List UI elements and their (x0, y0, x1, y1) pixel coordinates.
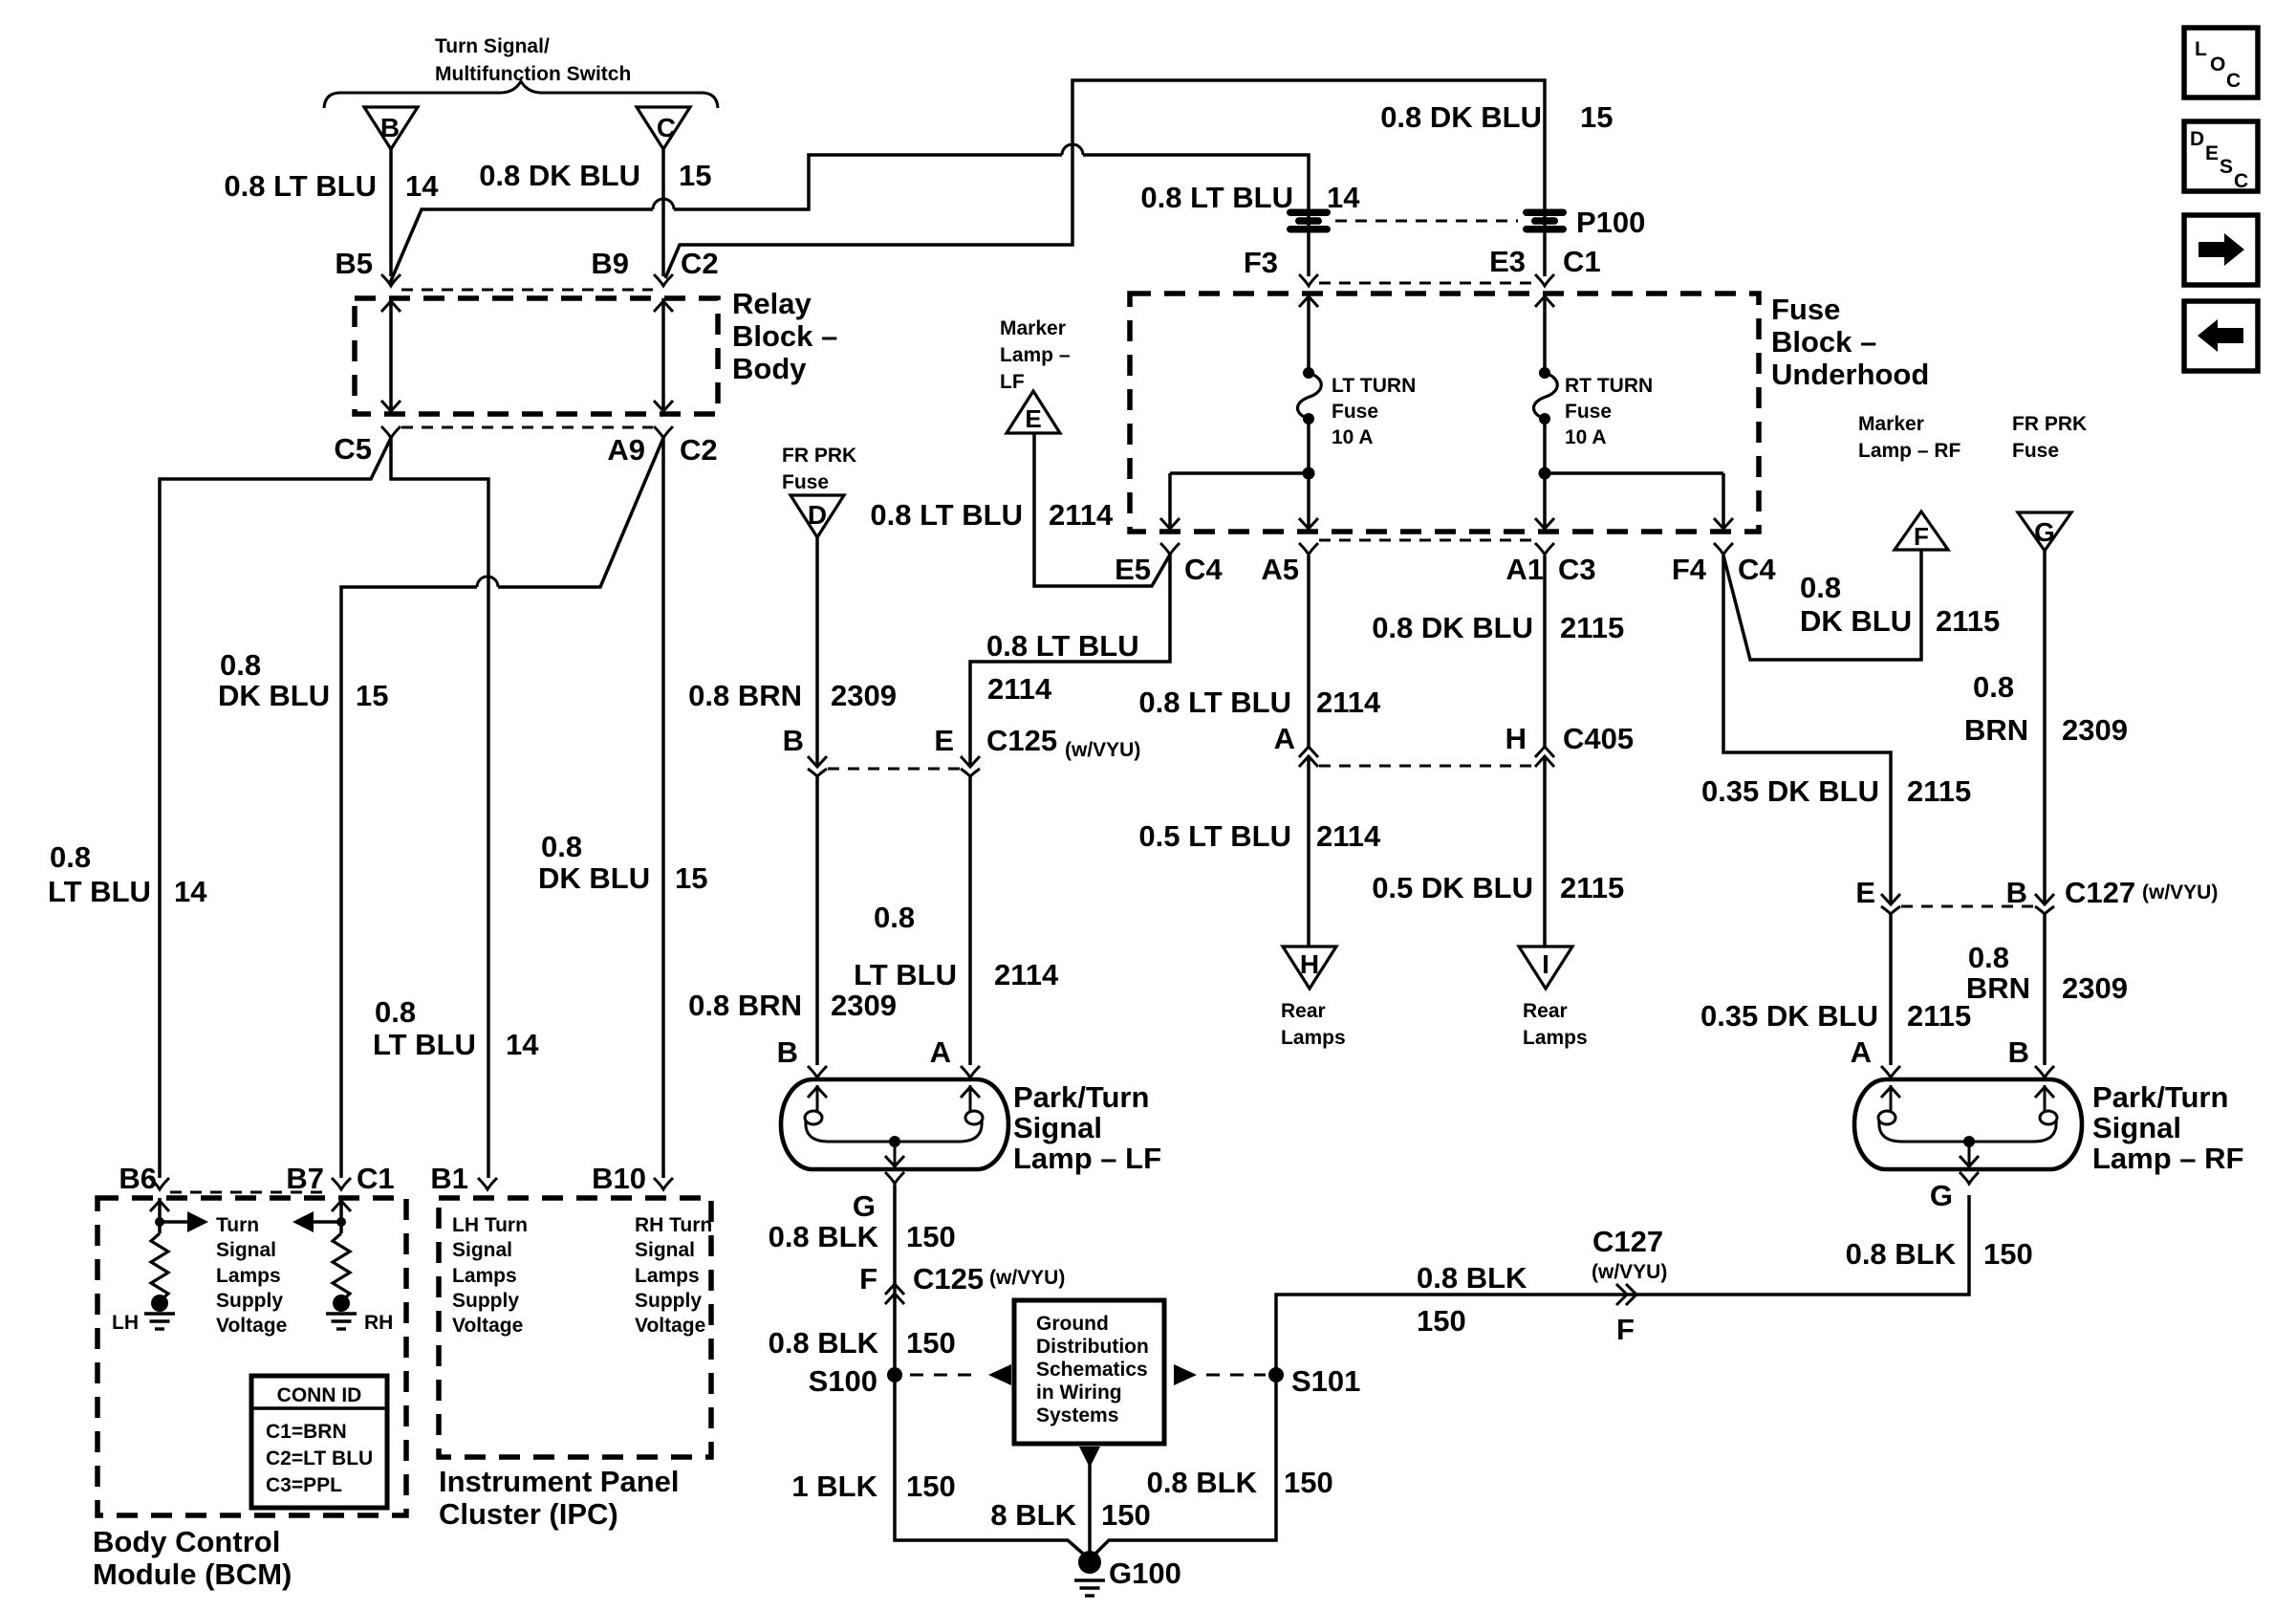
label 0.8 LT BLU 14 (top run) (1140, 181, 1360, 214)
svg-text:15: 15 (679, 159, 711, 192)
svg-text:0.8 DK BLU: 0.8 DK BLU (1372, 611, 1533, 644)
svg-text:D: D (808, 500, 827, 530)
svg-text:(w/VYU): (w/VYU) (2142, 882, 2218, 903)
svg-text:2309: 2309 (831, 679, 897, 712)
svg-text:1 BLK: 1 BLK (791, 1469, 877, 1503)
wire LT BLU 2114 A5 to rear lamps H (1307, 555, 1310, 947)
dashed line between grommets (1335, 220, 1518, 223)
svg-text:LT BLU: LT BLU (48, 875, 151, 908)
label 0.8 LT BLU 2114 (marker LF wire) (870, 498, 1114, 532)
svg-text:Signal: Signal (2092, 1111, 2181, 1144)
svg-text:0.8 BRN: 0.8 BRN (688, 989, 802, 1022)
svg-text:Park/Turn: Park/Turn (1013, 1080, 1149, 1114)
pin F (C125 ground) (859, 1262, 904, 1304)
svg-text:C127: C127 (2065, 876, 2135, 909)
BCM RH turn input (292, 1198, 357, 1329)
label 0.8 LT BLU 14 (circuit 14 at switch) (224, 169, 439, 203)
pin E (C125) (934, 724, 980, 776)
svg-text:O: O (2210, 54, 2225, 76)
wire DK BLU 15 A9 to BCM B7 (341, 438, 663, 1178)
svg-text:0.8: 0.8 (50, 840, 91, 874)
label 0.8 BLK 150 (lamp LF ground) (769, 1220, 956, 1253)
connector line C5-C2 (401, 426, 653, 429)
svg-text:B5: B5 (335, 247, 373, 280)
pin F (C127 ground) (1592, 1225, 1667, 1346)
pin C1 (BCM) (357, 1162, 395, 1195)
svg-text:LT TURN: LT TURN (1332, 375, 1416, 397)
label 0.8 DK BLU 2115 (marker RF wire) (1800, 571, 2000, 638)
svg-text:0.8 BLK: 0.8 BLK (1147, 1466, 1258, 1499)
svg-text:Voltage: Voltage (452, 1315, 523, 1337)
svg-text:0.5 LT BLU: 0.5 LT BLU (1138, 819, 1291, 853)
label 0.5 DK BLU 2115 (1372, 871, 1624, 904)
svg-text:150: 150 (906, 1220, 956, 1253)
svg-text:A: A (1274, 722, 1295, 755)
rear lamps connector H (1281, 947, 1346, 1049)
svg-text:C5: C5 (334, 432, 372, 466)
wire DK BLU 2115 F4 to marker lamp RF (1723, 550, 1921, 660)
svg-text:Signal: Signal (1013, 1111, 1102, 1144)
svg-text:DK BLU: DK BLU (218, 679, 330, 712)
svg-text:14: 14 (405, 169, 439, 203)
label 0.8 DK BLU 2115 (A1 to C405) (1372, 611, 1624, 644)
svg-text:Turn: Turn (216, 1214, 259, 1236)
svg-text:C: C (2226, 70, 2241, 92)
IPC LH turn indicator (452, 1214, 528, 1337)
svg-text:2114: 2114 (987, 672, 1052, 706)
svg-text:Turn Signal/: Turn Signal/ (435, 35, 550, 57)
pin A5 (1261, 543, 1318, 586)
svg-text:C: C (657, 113, 676, 142)
svg-text:C127: C127 (1592, 1225, 1663, 1258)
svg-text:I: I (1542, 949, 1549, 979)
Turn Signal/Multifunction Switch label (435, 35, 631, 85)
dashed pointer box to S101 (1174, 1364, 1266, 1385)
label 0.8 BLK 150 (S101 horizontal) (1417, 1261, 1527, 1338)
svg-text:0.8 LT BLU: 0.8 LT BLU (1140, 181, 1293, 214)
marker lamp - RF connector F (1858, 413, 1961, 551)
svg-text:Rear: Rear (1281, 1000, 1326, 1022)
svg-text:DK BLU: DK BLU (538, 861, 650, 895)
wire E3 into fuse block (1535, 294, 1554, 373)
svg-text:E3: E3 (1489, 245, 1526, 278)
svg-text:150: 150 (906, 1326, 956, 1360)
label 0.8 LT BLU 14 (wire to B1) (373, 995, 539, 1061)
label 0.8 BRN 2309 (upper) (688, 679, 897, 712)
BCM LH turn input (144, 1198, 208, 1329)
svg-text:CONN ID: CONN ID (277, 1384, 362, 1406)
pin C3 (1558, 553, 1596, 586)
label 0.5 LT BLU 2114 (1138, 819, 1381, 853)
lamp LF pin G (853, 1189, 876, 1223)
wire 0.8 BLK 150 S101 up to lamp RF G (1276, 1195, 1969, 1368)
svg-text:A5: A5 (1261, 553, 1299, 586)
label 0.8 LT BLU 14 (wire to B6) (48, 840, 207, 908)
svg-text:B: B (777, 1035, 798, 1069)
connector line B5-C2 (401, 289, 653, 292)
svg-text:Body: Body (732, 352, 807, 385)
svg-text:Systems: Systems (1036, 1404, 1118, 1426)
LH node label (112, 1312, 139, 1334)
svg-text:C3=PPL: C3=PPL (266, 1474, 342, 1496)
pin E (C127) (1855, 876, 1900, 914)
marker lamp - LF connector E (1000, 317, 1071, 433)
svg-text:Lamps: Lamps (1281, 1027, 1346, 1049)
lamp RF pin G (1930, 1172, 1979, 1212)
svg-text:2114: 2114 (1049, 498, 1114, 532)
svg-text:Block –: Block – (1771, 325, 1876, 359)
svg-text:G: G (1930, 1179, 1953, 1212)
connector C125 label (986, 724, 1140, 761)
svg-text:Lamp –: Lamp – (1000, 344, 1071, 366)
label 0.8 LT BLU 2114 (lamp LF pin A wire) (854, 901, 1059, 991)
svg-text:E: E (1025, 404, 1041, 433)
svg-text:Cluster (IPC): Cluster (IPC) (439, 1497, 618, 1531)
svg-text:C125: C125 (913, 1262, 984, 1295)
svg-text:Distribution: Distribution (1036, 1336, 1149, 1358)
svg-text:B: B (2006, 876, 2027, 909)
wire BRN 2309 C127 B to lamp RF pin B (2043, 914, 2047, 1065)
wire DK BLU 15 from B9/C2 to E3/C1 (665, 80, 1545, 278)
label 0.8 BRN 2309 (right upper) (1964, 670, 2128, 747)
svg-text:2309: 2309 (2062, 713, 2128, 747)
wire BRN 2309 C125 B to lamp LF pin B (815, 776, 819, 1065)
lamp LF pin A (930, 1035, 951, 1069)
svg-text:0.8 LT BLU: 0.8 LT BLU (986, 629, 1139, 663)
pin C2 (switch side) (654, 247, 719, 286)
connector C127 label (2065, 876, 2218, 909)
wire LT BLU 2114 E5 to marker lamp LF (1034, 433, 1170, 586)
svg-text:Lamp – LF: Lamp – LF (1013, 1142, 1161, 1175)
RH node label (364, 1312, 393, 1334)
svg-text:2114: 2114 (1316, 686, 1381, 719)
svg-text:Marker: Marker (1858, 413, 1924, 435)
svg-text:Supply: Supply (452, 1290, 519, 1312)
svg-text:2115: 2115 (1560, 611, 1624, 644)
svg-text:0.8 LT BLU: 0.8 LT BLU (870, 498, 1023, 532)
wire BRN 2309 D to C125 B (815, 537, 819, 767)
svg-text:0.35 DK BLU: 0.35 DK BLU (1701, 774, 1879, 808)
svg-text:0.8: 0.8 (375, 995, 416, 1029)
wire 0.8 BLK 150 S101 to G100 (1090, 1382, 1276, 1559)
svg-text:F: F (859, 1262, 877, 1295)
svg-text:FR PRK: FR PRK (2012, 413, 2087, 435)
svg-text:F: F (1914, 522, 1929, 551)
label 0.8 BLK 150 (S101 to ground) (1147, 1466, 1333, 1499)
svg-text:15: 15 (675, 861, 707, 895)
svg-text:8 BLK: 8 BLK (990, 1498, 1076, 1532)
svg-text:150: 150 (1284, 1466, 1333, 1499)
svg-text:G: G (2034, 517, 2055, 547)
svg-text:Fuse: Fuse (1771, 293, 1840, 326)
svg-text:C125: C125 (986, 724, 1057, 757)
svg-text:14: 14 (506, 1028, 539, 1061)
svg-text:14: 14 (174, 875, 207, 908)
ground distribution schematics box (1014, 1300, 1164, 1444)
svg-text:Fuse: Fuse (2012, 440, 2059, 462)
pin C1 (fuse block) (1535, 245, 1601, 286)
pin F3 (1244, 246, 1318, 286)
connector B (turn signal switch pin B) (364, 107, 418, 276)
wire DK BLU 2115 A1 to rear lamps I (1543, 555, 1547, 947)
svg-text:150: 150 (1417, 1304, 1466, 1338)
svg-text:Relay: Relay (732, 287, 812, 320)
pin B10 (592, 1162, 673, 1195)
svg-text:Lamps: Lamps (1523, 1027, 1588, 1049)
LT TURN fuse 10A (1298, 367, 1417, 448)
svg-text:E: E (934, 724, 954, 757)
dashed pointer S100 to ground distribution box (910, 1364, 1011, 1385)
svg-text:F4: F4 (1672, 553, 1707, 586)
svg-text:Supply: Supply (216, 1290, 283, 1312)
svg-text:2115: 2115 (1907, 999, 1971, 1033)
svg-text:14: 14 (1327, 181, 1360, 214)
connector line C127 E-B (1901, 905, 2034, 908)
svg-text:Fuse: Fuse (1565, 401, 1612, 423)
svg-text:15: 15 (1580, 100, 1613, 134)
svg-text:Signal: Signal (635, 1239, 695, 1261)
lamp RF pin B (2008, 1035, 2029, 1069)
connector C (turn signal switch pin C) (637, 107, 690, 276)
connector line F3-C1 (1319, 282, 1533, 285)
pin H (C405) (1505, 722, 1554, 767)
wire F3 into fuse block (1299, 294, 1318, 373)
svg-text:Lamps: Lamps (216, 1265, 281, 1287)
pin E3 (1489, 245, 1526, 278)
brace over multifunction switch (324, 81, 718, 108)
svg-text:C1: C1 (1563, 245, 1601, 278)
wire BLK 150 lamp LF G to S100 (885, 1172, 904, 1368)
BCM name (93, 1525, 292, 1591)
wire BRN 2309 G to C127 B (2043, 550, 2047, 904)
svg-text:Schematics: Schematics (1036, 1359, 1148, 1381)
relay block name (732, 287, 837, 385)
svg-text:10 A: 10 A (1565, 426, 1607, 448)
wire LT BLU 2114 E5 to C125 E (970, 555, 1170, 767)
svg-text:B: B (2008, 1035, 2029, 1069)
svg-text:Underhood: Underhood (1771, 358, 1929, 391)
wire LT BLU 14 from B5 to F3 (390, 144, 1309, 283)
relay block wire B9-A9 (654, 298, 673, 414)
svg-text:FR PRK: FR PRK (782, 445, 856, 467)
svg-text:LF: LF (1000, 371, 1025, 393)
svg-text:B10: B10 (592, 1162, 646, 1195)
svg-text:F: F (1616, 1313, 1635, 1346)
svg-text:D: D (2190, 128, 2204, 150)
svg-text:F3: F3 (1244, 246, 1278, 279)
pin B (C125) (783, 724, 827, 776)
CONN ID table (251, 1376, 387, 1508)
svg-text:LH: LH (112, 1312, 139, 1334)
wire DK BLU 2115 F4 to C127 E (1723, 555, 1891, 904)
svg-text:BRN: BRN (1964, 713, 2028, 747)
svg-text:0.8: 0.8 (874, 901, 915, 934)
svg-text:LT BLU: LT BLU (854, 958, 957, 991)
svg-text:E: E (2205, 142, 2219, 164)
svg-text:0.8: 0.8 (541, 830, 582, 863)
svg-text:0.8: 0.8 (1973, 670, 2014, 704)
IPC RH turn indicator (635, 1214, 712, 1337)
svg-text:Rear: Rear (1523, 1000, 1568, 1022)
svg-text:C405: C405 (1563, 722, 1634, 755)
ground G100 (1074, 1551, 1181, 1596)
label 0.8 BLK 150 (below C125) (769, 1326, 956, 1360)
pin A1 (1505, 543, 1554, 586)
svg-text:0.8 BLK: 0.8 BLK (1846, 1237, 1957, 1271)
RT TURN fuse 10A (1534, 367, 1654, 448)
svg-text:Body Control: Body Control (93, 1525, 280, 1558)
label 0.8 DK BLU 15 (wire to B7) (218, 648, 388, 712)
park/turn signal lamp - LF (781, 1066, 1161, 1175)
label 0.8 BRN 2309 (right lower) (1966, 941, 2128, 1005)
wire LT BLU 14 C5 to IPC B1 (391, 438, 488, 1178)
label 0.8 LT BLU 2114 (E5 to C125) (986, 629, 1139, 706)
svg-text:Signal: Signal (216, 1239, 276, 1261)
svg-text:B1: B1 (430, 1162, 468, 1195)
svg-text:0.5 DK BLU: 0.5 DK BLU (1372, 871, 1533, 904)
svg-text:Module (BCM): Module (BCM) (93, 1557, 292, 1591)
svg-text:0.8 LT BLU: 0.8 LT BLU (224, 169, 377, 203)
svg-text:150: 150 (1983, 1237, 2033, 1271)
svg-text:0.8 BLK: 0.8 BLK (1417, 1261, 1527, 1295)
prev arrow button (2184, 301, 2258, 371)
label 0.8 DK BLU 15 (circuit 15 at switch) (479, 159, 711, 192)
pin B (C127) (2006, 876, 2054, 914)
svg-text:(w/VYU): (w/VYU) (1065, 739, 1140, 761)
svg-text:Block –: Block – (732, 319, 837, 353)
svg-text:C: C (2234, 170, 2248, 192)
svg-text:S100: S100 (809, 1364, 877, 1398)
svg-text:C2: C2 (681, 247, 719, 280)
pin C5 (334, 426, 401, 466)
svg-text:S101: S101 (1291, 1364, 1360, 1398)
svg-text:B7: B7 (286, 1162, 324, 1195)
pin E5 (1115, 543, 1180, 586)
label 0.35 DK BLU 2115 (lower) (1700, 999, 1971, 1033)
svg-text:in Wiring: in Wiring (1036, 1382, 1122, 1404)
FR PRK fuse connector D (782, 445, 856, 537)
svg-text:LT BLU: LT BLU (373, 1028, 476, 1061)
svg-text:E5: E5 (1115, 553, 1151, 586)
svg-text:B: B (783, 724, 804, 757)
wire LT TURN fuse to A5/E5 (1160, 419, 1318, 529)
svg-text:2114: 2114 (994, 958, 1059, 991)
label 8 BLK 150 (990, 1498, 1150, 1532)
instrument panel cluster (dashed box) (439, 1198, 711, 1457)
label 0.8 LT BLU 2114 (A5 to C405) (1138, 686, 1381, 719)
svg-text:Park/Turn: Park/Turn (2092, 1080, 2228, 1114)
svg-text:0.8 LT BLU: 0.8 LT BLU (1138, 686, 1291, 719)
svg-text:150: 150 (1101, 1498, 1151, 1532)
svg-text:2115: 2115 (1907, 774, 1971, 808)
park/turn signal lamp - RF (1854, 1066, 2243, 1175)
next arrow button (2184, 215, 2258, 285)
connector line A5-A1 (1319, 539, 1533, 542)
svg-text:B: B (380, 113, 400, 142)
svg-text:Supply: Supply (635, 1290, 702, 1312)
svg-text:A: A (1851, 1035, 1872, 1069)
pin C4 (right) (1738, 553, 1776, 586)
svg-text:C3: C3 (1558, 553, 1596, 586)
svg-text:S: S (2220, 156, 2233, 178)
svg-text:H: H (1300, 949, 1319, 979)
svg-text:0.8 BLK: 0.8 BLK (769, 1220, 879, 1253)
svg-text:0.35 DK BLU: 0.35 DK BLU (1700, 999, 1878, 1033)
svg-text:0.8 DK BLU: 0.8 DK BLU (479, 159, 640, 192)
svg-text:0.8: 0.8 (1800, 571, 1841, 604)
label 0.8 DK BLU 15 (top run) (1380, 100, 1613, 134)
wire 8 BLK 150 box to G100 (1079, 1447, 1100, 1555)
grommet P100 on DK BLU wire (1523, 206, 1645, 239)
LOC button (2184, 28, 2258, 98)
svg-text:H: H (1505, 722, 1527, 755)
fuse block - underhood (dashed box) (1130, 294, 1759, 532)
IPC name (439, 1465, 680, 1531)
svg-text:C2: C2 (680, 433, 718, 467)
svg-text:G: G (853, 1189, 876, 1223)
svg-text:B9: B9 (591, 247, 629, 280)
svg-text:A9: A9 (607, 433, 645, 467)
wire RT TURN fuse to A1/F4 (1535, 419, 1733, 529)
svg-text:G100: G100 (1109, 1557, 1181, 1590)
svg-text:Lamps: Lamps (635, 1265, 700, 1287)
lamp LF pin B (777, 1035, 798, 1069)
label 0.8 DK BLU 15 (wire to B10) (538, 830, 707, 895)
svg-text:(w/VYU): (w/VYU) (1592, 1261, 1667, 1283)
FR PRK fuse connector G (2012, 413, 2087, 551)
svg-text:2309: 2309 (2062, 971, 2128, 1005)
svg-text:2309: 2309 (831, 989, 897, 1022)
svg-text:Lamp – RF: Lamp – RF (1858, 440, 1961, 462)
svg-text:Signal: Signal (452, 1239, 512, 1261)
wire LT BLU 14 C5 to BCM B6 (160, 438, 391, 1178)
svg-text:Lamps: Lamps (452, 1265, 517, 1287)
pin C4 (left) (1184, 553, 1223, 586)
svg-text:0.8: 0.8 (1968, 941, 2009, 974)
svg-text:RH: RH (364, 1312, 393, 1334)
label 0.8 BLK 150 (lamp RF ground) (1846, 1237, 2033, 1271)
svg-text:C1=BRN: C1=BRN (266, 1421, 347, 1443)
svg-text:L: L (2195, 38, 2207, 60)
svg-text:Multifunction Switch: Multifunction Switch (435, 63, 631, 85)
pin B1 (430, 1162, 497, 1195)
svg-text:A1: A1 (1505, 553, 1544, 586)
svg-text:150: 150 (906, 1469, 956, 1503)
DESC button (2184, 121, 2258, 192)
svg-text:RH Turn: RH Turn (635, 1214, 712, 1236)
connector C405 label (1563, 722, 1634, 755)
wire DK BLU 15 A9 to IPC B10 (661, 438, 665, 1178)
label 1 BLK 150 (791, 1469, 955, 1503)
body control module (dashed box) (97, 1198, 406, 1515)
relay block wire B5-C5 (381, 298, 401, 414)
BCM signal description (216, 1214, 287, 1337)
svg-text:Instrument Panel: Instrument Panel (439, 1465, 680, 1498)
svg-text:(w/VYU): (w/VYU) (989, 1267, 1065, 1289)
svg-text:Fuse: Fuse (1332, 401, 1378, 423)
svg-text:2114: 2114 (1316, 819, 1381, 853)
pin B7 (286, 1162, 351, 1195)
lamp RF pin A (1851, 1035, 1872, 1069)
svg-text:BRN: BRN (1966, 971, 2030, 1005)
svg-text:P100: P100 (1576, 206, 1645, 239)
wire LT BLU 2114 C125 E to lamp LF pin A (968, 776, 972, 1065)
wire DK BLU 2115 C127 E to lamp RF pin A (1889, 914, 1893, 1065)
svg-text:E: E (1855, 876, 1875, 909)
svg-text:RT TURN: RT TURN (1565, 375, 1653, 397)
relay block - body (dashed box) (355, 298, 718, 414)
pin B5 (335, 247, 401, 286)
